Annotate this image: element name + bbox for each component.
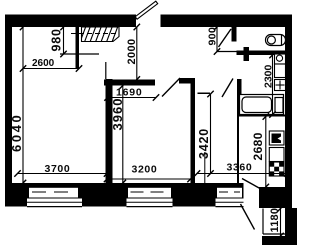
door kitchen-balcony leaf [242, 179, 260, 189]
kitchen sink [269, 131, 284, 145]
washbasin [275, 54, 286, 64]
svg-text:1180: 1180 [269, 208, 281, 233]
wall closet stub [76, 27, 80, 68]
dim 3200 [104, 176, 194, 182]
node corridor niche line [217, 51, 237, 53]
bathtub [240, 95, 284, 115]
door wc leaf [219, 29, 232, 47]
dim 2680 [263, 113, 269, 190]
svg-text:2000: 2000 [126, 38, 138, 64]
wall top-right [161, 15, 293, 28]
dim 2300 [269, 52, 275, 118]
balcony parapet bottom [263, 233, 285, 235]
wall bath-left [237, 79, 242, 115]
dim 1180 [277, 205, 283, 239]
dim 900 [214, 24, 220, 55]
door hall-room leaf [162, 78, 180, 97]
wall bottom [5, 183, 244, 207]
svg-text:2680: 2680 [251, 132, 265, 160]
dim 980 [60, 24, 66, 57]
stove checker [269, 162, 284, 176]
svg-text:3960: 3960 [110, 98, 125, 131]
wall corridor stub [244, 47, 250, 61]
svg-text:980: 980 [50, 28, 64, 51]
node closet front line [60, 53, 99, 55]
dim 3420 [207, 91, 213, 177]
dim 3700 [14, 170, 110, 176]
node hall edge line [105, 62, 107, 79]
dim 2000 [134, 24, 140, 83]
svg-text:2300: 2300 [263, 64, 275, 88]
svg-text:2600: 2600 [32, 58, 55, 69]
wall wc-bath partition [237, 51, 286, 56]
cross box [275, 80, 286, 91]
wall left [5, 15, 12, 185]
dim 3360 [194, 170, 290, 176]
dim 3960 [120, 82, 126, 186]
svg-text:900: 900 [207, 27, 219, 46]
wall kitchen partition [237, 117, 239, 191]
dim 1690 [104, 94, 159, 100]
dim 2600 [20, 65, 82, 71]
window 2 opening [128, 188, 171, 198]
svg-text:3200: 3200 [132, 163, 158, 175]
wall balcony bottom [262, 236, 297, 245]
door balcony-side leaf [241, 204, 255, 230]
wall kitchen-balcony block [259, 187, 292, 208]
wall under-bath [237, 115, 285, 117]
wall hall-south right [179, 78, 195, 84]
svg-text:3420: 3420 [197, 128, 211, 159]
wall wc-left [232, 27, 237, 42]
wall living-middle [106, 79, 113, 183]
wall top-left [5, 15, 136, 28]
svg-text:3700: 3700 [45, 163, 71, 175]
window 3 opening [217, 188, 242, 198]
wall hall-south left [104, 80, 155, 86]
window 1 opening [29, 188, 78, 198]
svg-text:6040: 6040 [9, 113, 24, 152]
dim 6040 [20, 24, 26, 186]
balcony parapet left [262, 209, 264, 235]
window 2 sill [127, 199, 173, 207]
svg-text:3360: 3360 [227, 162, 253, 174]
washing box [275, 64, 286, 78]
door bath leaf [222, 79, 233, 98]
wall right [285, 15, 292, 236]
door entrance leaf [135, 1, 158, 19]
kitchen counter [269, 148, 284, 162]
window 3 sill [216, 199, 244, 207]
wall right-room top [198, 93, 211, 95]
wall middle-right [191, 78, 196, 183]
wall balcony right [285, 208, 297, 245]
window 1 sill [27, 199, 82, 207]
toilet [266, 35, 286, 46]
node mystery ext line [204, 152, 206, 183]
vent shaft hatched [71, 26, 119, 42]
